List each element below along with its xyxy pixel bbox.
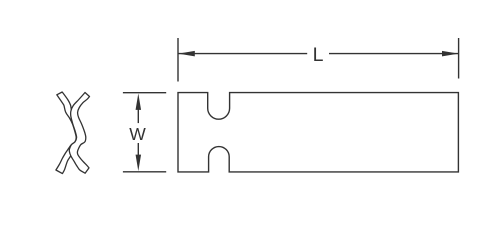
W arrow up (136, 93, 142, 110)
L dimension line right segment (329, 53, 459, 55)
plate with two keyhole notches (178, 93, 458, 172)
L dimension extension line right (458, 38, 460, 79)
L arrow left (178, 51, 195, 57)
label L (304, 46, 332, 66)
W dimension line lower segment (137, 143, 139, 156)
W dimension line upper segment (137, 110, 139, 124)
L dimension line left segment (178, 53, 307, 55)
W arrow down (136, 155, 142, 172)
W extension line top (123, 92, 166, 94)
W extension line bottom (123, 171, 166, 173)
front wavy band (69, 93, 89, 174)
label W (124, 126, 151, 144)
wave spring side-view symbol: rear band (56, 92, 90, 174)
L dimension extension line left (177, 38, 179, 82)
L arrow right (442, 51, 459, 57)
